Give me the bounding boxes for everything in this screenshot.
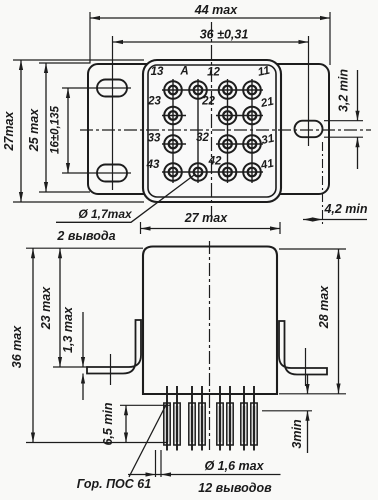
svg-text:13: 13 (151, 66, 164, 78)
dim d1,6 ext tick right (160, 450, 162, 477)
svg-text:Гор. ПОС 61: Гор. ПОС 61 (77, 477, 151, 491)
pin pair x=225 (217, 386, 233, 451)
dim d1,6 line (128, 474, 281, 476)
pin row line r2 right (216, 115, 263, 117)
pin circle r2c1 (164, 107, 182, 125)
svg-text:42: 42 (208, 156, 222, 168)
left bracket hole axis (110, 354, 112, 385)
dim 23max ext foot (53, 366, 88, 368)
svg-text:36 max: 36 max (10, 325, 24, 368)
dim 3,2min line lower (357, 137, 359, 169)
svg-text:25 max: 25 max (27, 108, 41, 152)
dim 25max ext bottom (39, 191, 90, 193)
svg-text:28 max: 28 max (317, 285, 331, 329)
svg-text:23: 23 (147, 96, 161, 108)
pin circle r4c3 (219, 163, 237, 181)
dim 27max cover ext right (279, 222, 281, 234)
dim 1,3max line lower (82, 374, 84, 401)
pin circle r1c1 (164, 81, 182, 99)
dim 3,2min line upper (357, 70, 359, 121)
svg-text:12 выводов: 12 выводов (198, 481, 272, 495)
pin row line r4 (162, 171, 263, 173)
dim 44max ext left (89, 12, 91, 64)
dim 4,2min line (303, 219, 367, 221)
svg-text:22: 22 (201, 96, 215, 108)
pin column line c3 (227, 79, 229, 183)
pin circle r3c4 (243, 135, 261, 153)
dim 3,2min ext bottom (324, 136, 363, 138)
pin circle r1c4 (243, 81, 261, 99)
svg-text:3,2 min: 3,2 min (337, 69, 351, 112)
right bracket (279, 321, 327, 375)
svg-text:3min: 3min (290, 419, 304, 449)
main horizontal centerline (80, 129, 371, 131)
svg-text:16±0,135: 16±0,135 (50, 105, 62, 153)
dim 36max line (32, 248, 34, 442)
dim 1,3max line upper (82, 312, 84, 367)
svg-text:4,2 min: 4,2 min (323, 202, 367, 216)
dim 28max line (338, 249, 340, 394)
svg-text:36 ±0,31: 36 ±0,31 (200, 28, 249, 42)
svg-text:27 max: 27 max (184, 211, 228, 225)
dim 36max ext top (26, 247, 143, 249)
pin pair x=197 (189, 386, 205, 451)
pin row line r3 left (162, 143, 186, 145)
dim 6,5min ext top (120, 404, 170, 406)
pin column line c1 (172, 79, 174, 183)
svg-text:23 max: 23 max (39, 286, 53, 330)
dim 28max ext top (279, 248, 346, 250)
pin row line r1 (162, 89, 263, 91)
svg-text:43: 43 (146, 159, 160, 171)
relay cover outer (143, 60, 281, 202)
svg-text:11: 11 (257, 65, 271, 79)
dim 25max line (45, 63, 47, 192)
relay cover inner line (148, 65, 276, 197)
svg-text:Ø 1,6 max: Ø 1,6 max (204, 459, 264, 473)
pin circle r3c3 (219, 135, 237, 153)
pin circle r1c2 (189, 81, 207, 99)
svg-text:Ø 1,7max: Ø 1,7max (78, 207, 133, 221)
cover vertical centerline (211, 22, 213, 216)
pin circle r4c2 (189, 163, 207, 181)
dim 6,5min line (125, 405, 127, 442)
pin circle r2c3 (219, 107, 237, 125)
pin circle r4c4 (243, 163, 261, 181)
mounting slot bottom-left (97, 165, 127, 182)
pin row line r3 right (216, 143, 263, 145)
left bracket (87, 320, 141, 374)
dim 44max ext right (329, 12, 331, 65)
dim 27max left line (20, 60, 22, 202)
mounting flange plate (88, 64, 329, 194)
dim 3,2min ext top (324, 120, 363, 122)
svg-text:6,5 min: 6,5 min (101, 402, 115, 445)
dim 44max line (90, 17, 330, 19)
pin pair x=249 (241, 386, 257, 451)
svg-text:A: A (179, 66, 188, 78)
dim 3min line upper (307, 374, 309, 394)
dim 36max ext bottom (26, 442, 168, 444)
dim 3min line lower (307, 411, 309, 453)
mounting slot right tab (295, 121, 323, 138)
right bracket hole axis (305, 348, 307, 386)
pin circle r1c3 (219, 81, 237, 99)
dim 28max ext bottom (279, 393, 346, 395)
pin column line c2 (197, 79, 199, 183)
svg-text:44 max: 44 max (194, 3, 238, 17)
dim 3min ext (262, 410, 312, 412)
slot axis vertical right tab (308, 36, 310, 146)
body vertical centerline (209, 241, 211, 450)
svg-text:32: 32 (196, 132, 209, 144)
dim 27max ext top (13, 59, 144, 61)
dim 16 line (67, 88, 69, 173)
pin circle r4c1 (164, 163, 182, 181)
svg-text:27max: 27max (2, 110, 16, 151)
slot axis horizontal bottom-left (62, 172, 131, 174)
dim 27max cover line (141, 228, 281, 230)
pin row line r2 left (162, 115, 186, 117)
pin pair x=172 (164, 386, 180, 451)
leader POS61 (129, 403, 167, 477)
dim 27max cover ext left (140, 222, 142, 234)
note leader with shelf (56, 174, 196, 222)
pin circle r2c4 (243, 107, 261, 125)
svg-text:1,3 max: 1,3 max (61, 306, 75, 353)
relay body front view (143, 247, 277, 395)
svg-text:2 вывода: 2 вывода (56, 229, 115, 243)
slot axis vertical left (112, 36, 114, 190)
dim 27max ext bottom (13, 201, 144, 203)
dim 23max line (59, 248, 61, 367)
svg-text:33: 33 (148, 133, 161, 145)
pin circle r3c1 (164, 135, 182, 153)
mounting slot top-left (97, 80, 127, 97)
svg-text:12: 12 (207, 67, 220, 79)
dim 25max ext top (39, 62, 90, 64)
slot axis horizontal top-left (62, 87, 131, 89)
dim 4,2min ext dashed (322, 142, 324, 227)
pin column line c4 (251, 79, 253, 183)
dim 36 line (113, 41, 309, 43)
dim d1,6 ext tick left (155, 450, 157, 477)
